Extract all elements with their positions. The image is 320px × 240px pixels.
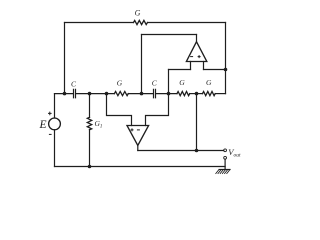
terminal Vout — [224, 149, 227, 152]
wire op-amp U2 output lead — [196, 35, 198, 42]
wire vertical through row at x=168 (to U1 inverting input) — [146, 70, 169, 126]
svg-text:Vout: Vout — [228, 147, 241, 158]
wire middle row segment 3 — [128, 93, 153, 95]
label + of U1 — [131, 128, 134, 131]
label - of source E — [49, 133, 52, 135]
node row x=196.8 — [195, 92, 199, 96]
wire output line to Vout — [138, 150, 224, 152]
op-amp U1 — [127, 126, 149, 146]
wire top-left vertical from row node up to top feedback — [64, 23, 66, 94]
wire op-amp U2 output feedback vertical to row — [141, 35, 143, 94]
svg-text:G: G — [206, 78, 212, 87]
wire middle row segment 5 — [190, 93, 203, 95]
label - of U2 — [190, 56, 193, 58]
node row x=89.7 — [88, 92, 92, 96]
wire U2 inverting input lead — [190, 62, 192, 70]
svg-text:C: C — [71, 79, 77, 88]
terminal ground side — [224, 156, 227, 159]
wire U2 non-inverting input lead — [203, 62, 205, 70]
source E circle — [49, 118, 61, 130]
resistor G top feedback — [134, 20, 148, 24]
wire middle row segment 2 — [76, 93, 114, 95]
svg-text:G: G — [179, 78, 185, 87]
wire vertical from row to output line — [196, 94, 198, 151]
wire bottom rail — [55, 166, 226, 168]
wire top feedback left segment — [65, 22, 134, 24]
op-amp U2 — [186, 42, 206, 62]
wire U1 output lead — [137, 145, 139, 150]
wire middle row segment 4 — [156, 93, 177, 95]
wire G1 bottom lead — [89, 130, 91, 167]
svg-text:G: G — [135, 9, 141, 18]
node rail x=225 y=69.6 — [224, 68, 228, 72]
node row x=106.5 — [105, 92, 109, 96]
ground — [219, 169, 230, 171]
wire U2 non-inverting input to right rail — [204, 69, 226, 71]
capacitor C1 — [74, 89, 76, 97]
wire top feedback right segment — [148, 22, 226, 24]
svg-text:C: C — [152, 79, 158, 88]
node row x=64.5 — [63, 92, 67, 96]
wire lower terminal to ground — [224, 159, 226, 169]
label + of source E — [48, 112, 52, 116]
svg-text:E: E — [39, 119, 47, 131]
wire right rail down to row — [225, 23, 227, 94]
label - of U1 — [137, 129, 140, 131]
wire source E top lead — [54, 94, 56, 118]
resistor G row-left — [114, 92, 128, 96]
resistor G row-right — [203, 92, 216, 96]
wire middle row segment 1 — [55, 93, 73, 95]
wire middle row segment 6 — [215, 93, 225, 95]
svg-text:G: G — [117, 79, 123, 88]
wire U1 non-inverting input from row — [107, 94, 132, 126]
label + of U2 — [198, 55, 201, 58]
node row x=141 — [140, 92, 144, 96]
wire U2 inverting input to left — [169, 69, 191, 71]
capacitor C2 — [154, 89, 156, 97]
wire G1 top lead — [89, 94, 91, 118]
node row x=168.3 — [167, 92, 171, 96]
node output line — [195, 149, 199, 153]
wire source E bottom lead — [54, 130, 56, 167]
svg-text:G1: G1 — [95, 119, 103, 129]
resistor G row-middle — [177, 92, 190, 96]
wire op-amp U2 output feedback horizontal — [142, 34, 197, 36]
resistor G1 vertical — [87, 117, 91, 130]
node bottom rail G1 — [88, 165, 92, 169]
